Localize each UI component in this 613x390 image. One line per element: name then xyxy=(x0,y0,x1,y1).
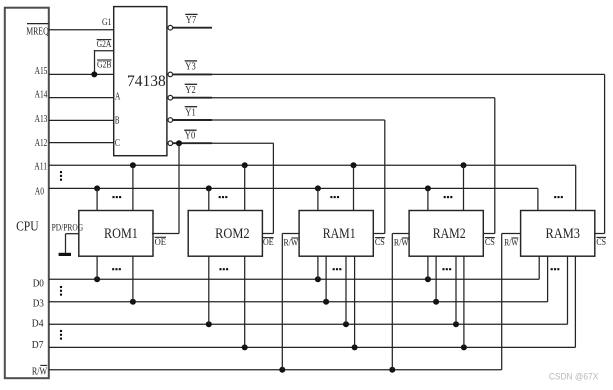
svg-text:74138: 74138 xyxy=(127,73,166,90)
inverting bubble output Y3 xyxy=(168,72,173,77)
memory chip RAM1 box xyxy=(299,211,373,257)
node A0 junction at RAM1 xyxy=(315,185,321,191)
wire D3 pin of RAM1 xyxy=(325,256,327,302)
svg-text:RAM1: RAM1 xyxy=(323,226,356,242)
label Y2 with overline xyxy=(185,84,197,96)
wire bus D4 horizontal xyxy=(49,323,568,325)
node A11 junction at ROM1 xyxy=(130,162,136,168)
svg-text:D0: D0 xyxy=(33,277,45,289)
CPU pin label MREQ with overline xyxy=(26,24,49,38)
wire net Y1 vertical xyxy=(384,120,386,234)
ellipsis below RAM2 xyxy=(442,268,451,270)
wire A0 drop to RAM2 xyxy=(427,188,429,210)
inverting bubble output Y0 xyxy=(168,141,173,146)
wire A12 to pin C xyxy=(49,142,114,144)
ellipsis above ROM2 xyxy=(219,196,228,198)
wire A0 drop to ROM1 xyxy=(96,188,98,210)
wire net Y1 stub into RAM1 CS xyxy=(373,233,384,235)
wire D3 pin of RAM3 xyxy=(547,256,549,302)
ground bar xyxy=(59,253,71,256)
wire Y2 stub xyxy=(173,97,212,99)
wire net Y2 stub into RAM2 CS xyxy=(483,233,494,235)
label OE of ROM1 with overline xyxy=(155,237,166,248)
wire Y1 stub xyxy=(173,119,212,121)
svg-text:ROM1: ROM1 xyxy=(104,226,138,242)
ellipsis below ROM2 xyxy=(219,268,228,270)
wire bus A11 horizontal xyxy=(49,164,576,166)
wire D0 pin of RAM1 xyxy=(317,256,319,279)
wire Y3 stub xyxy=(173,73,212,75)
node D4 junction at RAM1 xyxy=(343,321,349,327)
wire D4 pin of ROM2 xyxy=(208,256,210,324)
wire D3 pin of RAM2 xyxy=(435,256,437,302)
wire R/W stub into RAM2 xyxy=(392,233,409,235)
svg-text:ROM2: ROM2 xyxy=(215,226,250,242)
svg-text:R/W: R/W xyxy=(394,237,409,248)
node D0 junction at RAM1 xyxy=(315,276,321,282)
node D3 junction at ROM1 xyxy=(130,299,136,305)
wire bus D0 horizontal xyxy=(49,278,539,280)
memory chip RAM3 box xyxy=(521,211,595,257)
svg-text:Y1: Y1 xyxy=(185,106,195,118)
wire D4 pin of RAM3 xyxy=(567,256,569,324)
svg-text:G2A: G2A xyxy=(97,40,112,50)
wire net Y3 stub into RAM3 CS xyxy=(595,233,605,235)
wire bus A0 horizontal xyxy=(49,187,538,189)
wire net Y0 branch vertical to ROM1 xyxy=(178,143,180,233)
svg-text:R/W: R/W xyxy=(284,237,299,248)
wire bus R/W horizontal xyxy=(49,369,502,371)
node D3 junction at RAM1 xyxy=(323,299,329,305)
inverting bubble output Y7 xyxy=(168,25,173,30)
node A11 junction at RAM1 xyxy=(351,162,357,168)
vertical ellipsis between A11 and A0 xyxy=(60,171,62,181)
inverting bubble output Y2 xyxy=(168,95,173,100)
node A0 junction at RAM2 xyxy=(425,185,431,191)
wire D4 pin of RAM2 xyxy=(455,256,457,324)
node A15/G2A junction xyxy=(91,71,97,77)
svg-text:A15: A15 xyxy=(35,65,48,77)
svg-text:G2B: G2B xyxy=(97,60,112,70)
label R/W of RAM3 with overline on W xyxy=(504,238,519,249)
svg-text:A11: A11 xyxy=(34,161,47,173)
svg-text:A: A xyxy=(115,91,121,103)
svg-text:PD/PROG: PD/PROG xyxy=(52,224,84,234)
ellipsis below RAM1 xyxy=(333,268,342,270)
wire D7 pin of RAM2 xyxy=(463,256,465,347)
wire A11 drop to RAM1 xyxy=(353,165,355,210)
wire Y0 stub xyxy=(173,142,212,144)
wire A14 to pin A xyxy=(49,97,114,99)
wire bus D7 horizontal xyxy=(49,346,576,348)
wire D0 pin of ROM1 xyxy=(96,256,98,279)
svg-text:CS: CS xyxy=(596,237,606,248)
wire D7 pin of RAM3 xyxy=(574,256,576,347)
wire A0 drop to ROM2 xyxy=(208,188,210,210)
svg-text:D4: D4 xyxy=(32,318,44,330)
label CS of RAM3 with overline xyxy=(596,237,606,248)
wire A15 to G2B xyxy=(49,73,114,75)
wire A11 drop to RAM3 xyxy=(575,165,577,210)
memory chip ROM2 box xyxy=(188,211,262,257)
svg-text:RAM3: RAM3 xyxy=(546,226,581,242)
svg-text:Y2: Y2 xyxy=(185,84,195,96)
wire D3 pin of ROM1 xyxy=(132,256,134,302)
node D3 junction at RAM2 xyxy=(433,299,439,305)
wire net Y2 vertical xyxy=(494,98,496,234)
node R/W junction at RAM2 xyxy=(389,367,395,373)
ellipsis above ROM1 xyxy=(112,196,121,198)
memory chip RAM2 box xyxy=(409,211,483,257)
wire MREQ to G1 xyxy=(49,29,114,31)
node R/W junction at RAM1 xyxy=(279,367,285,373)
label CS of RAM1 with overline xyxy=(375,237,385,248)
node D7 junction at RAM1 xyxy=(352,344,358,350)
wire R/W stub into RAM1 xyxy=(282,233,299,235)
wire net Y0 horizontal xyxy=(212,142,273,144)
svg-text:CS: CS xyxy=(485,237,495,248)
node D4 junction at RAM2 xyxy=(453,321,459,327)
svg-text:A14: A14 xyxy=(35,88,48,100)
wire bus D3 horizontal xyxy=(49,301,548,303)
wire A11 drop to RAM2 xyxy=(463,165,465,210)
svg-text:D7: D7 xyxy=(32,339,44,351)
wire D7 pin of RAM1 xyxy=(354,256,356,347)
wire A11 drop to ROM2 xyxy=(244,165,246,210)
label OE of ROM2 with overline xyxy=(263,237,274,248)
wire A0 drop to RAM1 xyxy=(317,188,319,210)
inverting bubble output Y1 xyxy=(168,118,173,123)
wire A13 to pin B xyxy=(49,119,114,121)
memory chip ROM1 box xyxy=(79,211,153,257)
svg-text:A12: A12 xyxy=(35,137,48,149)
CPU box xyxy=(5,8,49,379)
node D7 junction at ROM2 xyxy=(242,344,248,350)
wire R/W vertical to RAM1 xyxy=(281,234,283,370)
svg-text:MREQ: MREQ xyxy=(26,26,49,38)
wire net Y3 horizontal xyxy=(212,73,605,75)
wire net Y3 vertical xyxy=(604,74,606,233)
node D0 junction at ROM1 xyxy=(94,276,100,282)
node D7 junction at RAM2 xyxy=(461,344,467,350)
wire R/W vertical to RAM3 xyxy=(501,234,503,370)
wire R/W vertical to RAM2 xyxy=(391,234,393,370)
label Y0 with overline xyxy=(184,129,196,141)
wire A0 drop to RAM3 xyxy=(537,188,539,210)
label Y1 with overline xyxy=(185,106,197,118)
svg-text:Y7: Y7 xyxy=(186,14,197,26)
svg-text:R/W: R/W xyxy=(32,366,48,378)
ellipsis below ROM1 xyxy=(112,268,121,270)
label Y3 with overline xyxy=(185,61,197,73)
wire G2A jumper horizontal xyxy=(95,50,114,52)
ellipsis above RAM2 xyxy=(444,196,453,198)
svg-text:D3: D3 xyxy=(33,297,45,309)
decoder 74138 box xyxy=(114,7,167,156)
wire D0 pin of RAM2 xyxy=(427,256,429,279)
vertical ellipsis between D0 and D3 xyxy=(60,286,62,296)
label Y7 with overline xyxy=(185,14,197,26)
node D4 junction at ROM2 xyxy=(206,321,212,327)
node A11 junction at RAM2 xyxy=(461,162,467,168)
svg-text:OE: OE xyxy=(263,237,274,248)
wire D0 pin of RAM3 xyxy=(538,256,540,279)
svg-text:CS: CS xyxy=(375,237,385,248)
svg-text:R/W: R/W xyxy=(504,238,519,249)
svg-text:A13: A13 xyxy=(35,113,48,125)
decoder pin label G2A with overline xyxy=(97,40,112,50)
node A0 junction at ROM1 xyxy=(94,185,100,191)
decoder pin label G2B with overline xyxy=(97,60,112,70)
svg-text:C: C xyxy=(115,137,120,149)
wire D7 pin of ROM2 xyxy=(244,256,246,347)
label CS of RAM2 with overline xyxy=(485,237,495,248)
svg-text:B: B xyxy=(115,115,120,127)
wire D4 pin of RAM1 xyxy=(345,256,347,324)
wire G2A jumper vertical xyxy=(94,50,96,74)
wire R/W stub into RAM3 xyxy=(502,233,521,235)
svg-text:CSDN @67X: CSDN @67X xyxy=(549,372,599,383)
node Y0 branch junction xyxy=(176,140,182,146)
vertical ellipsis between D4 and D7 xyxy=(60,330,62,340)
wire PD/PROG vertical xyxy=(65,234,67,253)
label R/W of RAM1 with overline on W xyxy=(284,237,299,248)
svg-text:Y0: Y0 xyxy=(185,129,196,141)
node D0 junction at RAM2 xyxy=(425,276,431,282)
ellipsis above RAM1 xyxy=(330,196,339,198)
ellipsis below RAM3 xyxy=(551,268,560,270)
label R/W of RAM2 with overline on W xyxy=(394,237,409,248)
wire net Y1 horizontal xyxy=(212,119,385,121)
wire net Y0 stub into ROM1 OE xyxy=(152,233,179,235)
svg-text:A0: A0 xyxy=(35,185,45,197)
wire net Y0 stub into ROM2 OE xyxy=(263,233,274,235)
svg-text:RAM2: RAM2 xyxy=(433,226,466,242)
node A0 junction at ROM2 xyxy=(206,185,212,191)
ellipsis above RAM3 xyxy=(554,196,563,198)
node A11 junction at ROM2 xyxy=(242,162,248,168)
svg-text:OE: OE xyxy=(155,237,166,248)
wire A11 drop to ROM1 xyxy=(132,165,134,210)
svg-text:Y3: Y3 xyxy=(185,61,196,73)
svg-text:G1: G1 xyxy=(102,18,112,28)
wire PD/PROG stub xyxy=(66,233,79,235)
CPU pin label R/W with overline on W xyxy=(32,365,48,377)
wire net Y2 horizontal xyxy=(212,97,495,99)
svg-text:CPU: CPU xyxy=(16,219,38,234)
wire net Y0 vertical to ROM2 xyxy=(272,143,274,233)
wire Y7 stub xyxy=(173,27,212,29)
